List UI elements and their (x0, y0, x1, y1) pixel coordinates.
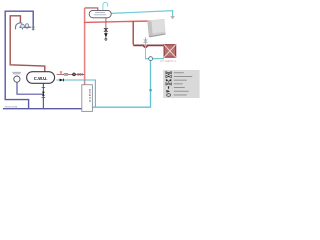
svg-text:zimna woda: zimna woda (5, 105, 18, 108)
svg-text:kocioł C.O.: kocioł C.O. (88, 89, 92, 103)
svg-text:C.W.U.: C.W.U. (34, 76, 48, 81)
svg-text:piec węglowy c.o.: piec węglowy c.o. (160, 61, 177, 63)
